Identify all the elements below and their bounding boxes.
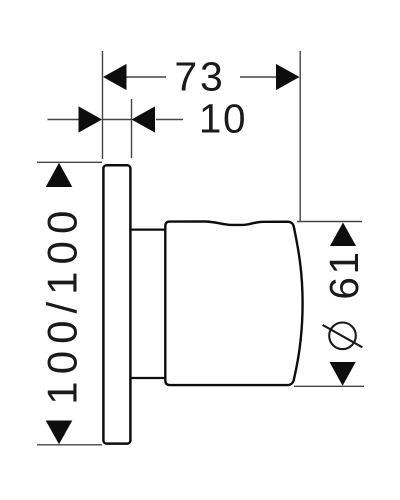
svg-text:10: 10	[199, 96, 247, 142]
svg-text:61: 61	[321, 249, 367, 299]
svg-text:73: 73	[174, 54, 225, 100]
